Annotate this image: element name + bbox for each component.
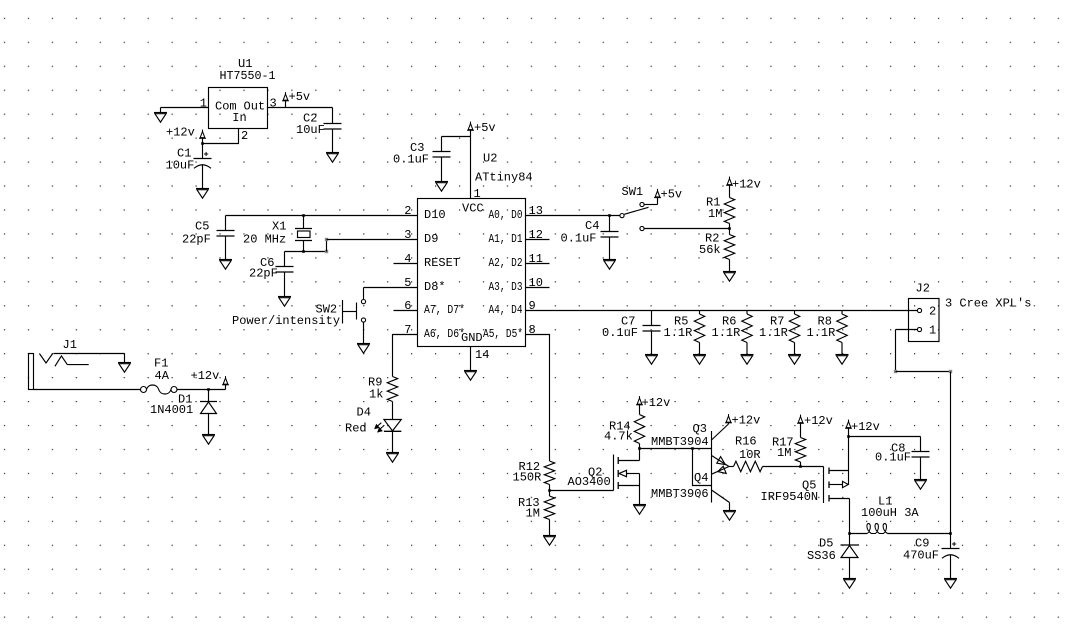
svg-text:D4: D4 (357, 405, 371, 419)
ground (843, 579, 856, 589)
wire J1 tip (54, 353, 125, 355)
resistor R12 (544, 461, 554, 491)
svg-text:+5v: +5v (289, 90, 311, 104)
resistor R5 (694, 311, 704, 355)
inductor L1 (867, 524, 888, 534)
U2 left pin 2 (D10) (404, 204, 445, 222)
svg-text:0.1uF: 0.1uF (875, 451, 911, 465)
svg-text:C5: C5 (195, 220, 209, 234)
svg-text:0.1uF: 0.1uF (393, 153, 429, 167)
J2 pin 2 (917, 308, 921, 312)
svg-text:A7, D7*: A7, D7* (424, 303, 465, 317)
U2 right pin 8 (A5, D5*) (483, 323, 536, 341)
svg-text:+12v: +12v (642, 396, 671, 410)
U2 left pin 7 (A6, D6*) (404, 323, 465, 341)
U2 left pin 6 (A7, D7*) (394, 299, 466, 317)
ground (386, 453, 399, 463)
svg-text:IRF9540N: IRF9540N (761, 490, 819, 504)
ground (435, 182, 448, 192)
svg-text:A0, D0: A0, D0 (489, 208, 523, 222)
svg-text:3: 3 (270, 96, 277, 110)
transistor Q2 AO3400 n-mosfet (614, 449, 640, 505)
svg-text:1k: 1k (369, 388, 383, 402)
svg-text:A3, D3: A3, D3 (489, 280, 523, 294)
LED D4 (375, 420, 402, 432)
U2 pin 14 GND stub (470, 347, 472, 371)
svg-text:10: 10 (529, 276, 543, 290)
svg-text:+12v: +12v (732, 178, 761, 192)
ground (788, 355, 801, 365)
wire gate Q2 (550, 490, 614, 492)
svg-text:A5, D5*: A5, D5* (483, 327, 523, 341)
junction (638, 447, 641, 450)
resistor R8 (837, 311, 847, 355)
capacitor C1 polarized (194, 144, 212, 189)
svg-text:1N4001: 1N4001 (150, 403, 193, 417)
wire VCC pin 1 (470, 137, 472, 199)
svg-text:2: 2 (929, 305, 936, 319)
wire to D9 (326, 240, 328, 252)
svg-text:20 MHz: 20 MHz (243, 233, 286, 247)
wire J2 pin1 down (895, 330, 897, 372)
svg-text:VCC: VCC (462, 201, 484, 215)
switch SW1 (620, 198, 658, 218)
supply +12v (636, 396, 643, 405)
wire L1 to output (888, 533, 951, 535)
wire U1 pin1 input (161, 107, 209, 109)
svg-text:Red: Red (345, 422, 367, 436)
ground (160, 108, 162, 113)
wire emitters to R16 (729, 466, 734, 468)
svg-text:+5v: +5v (661, 188, 683, 202)
svg-text:D8*: D8* (424, 280, 446, 294)
junction (302, 214, 305, 217)
ground (219, 260, 232, 270)
ground (124, 354, 126, 363)
svg-text:+12v: +12v (851, 420, 880, 434)
wire Q4 base branch (693, 449, 712, 486)
wire to Q3/Q4 bases (640, 448, 712, 450)
junction (799, 465, 802, 468)
ground (196, 189, 209, 199)
U2 right pin 9 (A4, D4) (489, 299, 536, 317)
ground (278, 297, 291, 307)
diode D5 SS36 (841, 534, 860, 579)
junction (848, 532, 851, 535)
ground (741, 355, 754, 365)
svg-text:In: In (232, 111, 246, 125)
capacitor C5 (217, 216, 235, 260)
wire crystal bottom (285, 251, 327, 253)
ground (914, 480, 927, 490)
svg-text:AO3400: AO3400 (568, 475, 611, 489)
resistor R7 (789, 311, 799, 355)
svg-text:Q3: Q3 (693, 422, 707, 436)
junction (949, 532, 952, 535)
wire R9 to D4 (392, 402, 394, 420)
resistor R13 (544, 491, 554, 536)
wire D8* net (364, 287, 418, 289)
supply +5v (654, 189, 661, 198)
capacitor C3 (433, 137, 451, 182)
svg-text:U2: U2 (483, 152, 497, 166)
svg-text:MMBT3906: MMBT3906 (651, 487, 709, 501)
junction (847, 435, 850, 438)
junction (691, 447, 694, 450)
svg-text:0.1uF: 0.1uF (561, 232, 597, 246)
ground (357, 344, 370, 354)
svg-text:1.1R: 1.1R (712, 326, 741, 340)
capacitor C4 (601, 216, 619, 260)
svg-text:1.1R: 1.1R (664, 326, 693, 340)
svg-text:R16: R16 (735, 435, 757, 449)
transistor Q4 MMBT3906 pnp (712, 466, 730, 510)
wire F1 to +12v (177, 389, 226, 391)
svg-text:A2, D2: A2, D2 (489, 256, 523, 270)
svg-text:X1: X1 (272, 220, 286, 234)
resistor R1 (724, 192, 734, 229)
U2 left pin 5 (D8*) (404, 276, 445, 294)
supply +12v (845, 420, 852, 437)
wire Q5 drain to L1 (850, 533, 868, 535)
net endpoint marker (325, 238, 328, 241)
U2 right pin 12 (A1, D1) (489, 228, 550, 246)
svg-text:J1: J1 (63, 338, 77, 352)
diode D1 (200, 390, 217, 435)
fuse F1 (141, 385, 178, 394)
svg-text:A1, D1: A1, D1 (489, 232, 523, 246)
ground (464, 371, 477, 381)
ground (645, 355, 658, 365)
junction (728, 227, 731, 230)
svg-text:470uF: 470uF (903, 549, 939, 563)
ground (543, 536, 556, 546)
svg-text:1.1R: 1.1R (759, 326, 788, 340)
svg-text:RESET: RESET (424, 256, 460, 270)
svg-text:1M: 1M (777, 446, 791, 460)
svg-text:4A: 4A (155, 369, 170, 383)
svg-text:10uF: 10uF (166, 159, 195, 173)
crystal X1 (295, 216, 312, 252)
svg-text:14: 14 (475, 348, 489, 362)
svg-text:0.1uF: 0.1uF (602, 326, 638, 340)
wire A5/D5 net to R12 (526, 335, 550, 462)
ground (693, 355, 706, 365)
svg-text:A4, D4: A4, D4 (489, 303, 523, 317)
svg-text:10R: 10R (739, 448, 761, 462)
svg-text:1: 1 (200, 96, 207, 110)
connector J2 box (909, 299, 940, 342)
svg-text:1M: 1M (708, 207, 722, 221)
svg-text:Q4: Q4 (694, 471, 708, 485)
svg-text:22pF: 22pF (182, 233, 211, 247)
svg-text:Out: Out (244, 100, 266, 114)
U2 left pin 4 (RESET) (394, 252, 461, 270)
supply +5v (282, 92, 289, 107)
capacitor C7 (643, 311, 661, 355)
svg-text:1.1R: 1.1R (807, 326, 836, 340)
wire A6/D6 net (393, 335, 418, 377)
svg-text:SS36: SS36 (807, 549, 836, 563)
svg-text:4: 4 (404, 252, 411, 266)
junction (608, 214, 611, 217)
svg-text:22pF: 22pF (249, 267, 278, 281)
supply +12v (199, 130, 206, 144)
wire A4/D4 net (526, 310, 918, 312)
wire D10 net (226, 215, 418, 217)
U2 left pin 3 (D9) (404, 228, 438, 246)
svg-text:4.7k: 4.7k (604, 430, 633, 444)
resistor R2 (724, 229, 734, 272)
svg-text:150R: 150R (513, 471, 542, 485)
svg-text:56k: 56k (699, 243, 721, 257)
supply +12v (797, 415, 804, 424)
ground (723, 511, 736, 521)
svg-text:10uF: 10uF (296, 123, 325, 137)
wire SW1 to divider (644, 228, 729, 230)
junction (201, 142, 204, 145)
U2 right pin 13 (A0, D0) (489, 204, 543, 222)
resistor R9 (387, 377, 397, 402)
ground (944, 579, 957, 589)
ground (202, 435, 215, 445)
junction (548, 489, 551, 492)
svg-text:1M: 1M (526, 507, 540, 521)
wire R16 to gate (763, 466, 824, 468)
svg-text:6: 6 (404, 299, 411, 313)
resistor R17 (795, 423, 805, 466)
net endpoint marker (949, 370, 952, 373)
supply +12v (726, 177, 733, 192)
connector J1 barrel jack (29, 354, 89, 390)
svg-text:D10: D10 (424, 208, 446, 222)
supply +5v (467, 122, 474, 137)
wire J1 sleeve (34, 389, 141, 391)
svg-text:1: 1 (929, 324, 936, 338)
capacitor C2 (324, 108, 342, 153)
capacitor C8 (912, 437, 930, 480)
svg-text:2: 2 (241, 129, 248, 143)
U2 right pin 10 (A3, D3) (489, 276, 550, 294)
ground (633, 505, 646, 515)
ground (723, 272, 736, 282)
wire +12v to C8 (849, 436, 921, 438)
svg-text:+12v: +12v (166, 126, 195, 140)
svg-text:100uH 3A: 100uH 3A (861, 506, 919, 520)
junction (207, 388, 210, 391)
wire A0/D0 net (526, 215, 620, 217)
svg-text:+12v: +12v (804, 414, 833, 428)
supply +12v (222, 376, 229, 389)
J2 pin 1 (896, 324, 937, 338)
supply +12v (725, 414, 732, 424)
svg-text:+12v: +12v (191, 369, 220, 383)
svg-text:11: 11 (529, 252, 543, 266)
junction (302, 250, 305, 253)
svg-text:A6, D6*: A6, D6* (424, 327, 465, 341)
svg-text:J2: J2 (916, 282, 930, 296)
svg-text:3 Cree XPL's: 3 Cree XPL's (945, 297, 1031, 311)
svg-text:+5v: +5v (474, 121, 496, 135)
wire U1 pin2 (203, 129, 239, 144)
IC U1 box (209, 88, 268, 129)
wire +5v to VCC (442, 136, 471, 138)
resistor R6 (742, 311, 752, 355)
U2 right pin 11 (A2, D2) (489, 252, 550, 270)
wire across (896, 371, 951, 373)
svg-text:+12v: +12v (732, 414, 761, 428)
net endpoint marker (325, 250, 328, 253)
resistor R14 (634, 405, 644, 449)
wire to output node (950, 372, 952, 534)
capacitor C6 (276, 252, 294, 297)
wire U1 pin3 output (268, 107, 333, 109)
svg-text:ATtiny84: ATtiny84 (475, 171, 533, 185)
switch SW2 pushbutton (343, 288, 366, 344)
ground (326, 153, 339, 163)
svg-text:Power/intensity: Power/intensity (232, 314, 340, 328)
svg-text:12: 12 (529, 228, 543, 242)
capacitor C9 polarized (942, 534, 960, 579)
ground (603, 260, 616, 270)
svg-text:MMBT3904: MMBT3904 (651, 435, 709, 449)
transistor Q3 MMBT3904 npn (712, 424, 730, 503)
switch SW1 lower contact (640, 226, 644, 230)
transistor Q5 IRF9540N p-mosfet (824, 437, 850, 534)
ground (836, 355, 849, 365)
IC U2 ATtiny84 box (418, 199, 526, 347)
svg-text:HT7550-1: HT7550-1 (220, 69, 276, 83)
resistor R16 (734, 461, 763, 471)
net endpoint marker (894, 370, 897, 373)
wire D9 net (327, 239, 418, 241)
svg-text:D9: D9 (424, 232, 438, 246)
wire D4 to ground (392, 431, 394, 452)
svg-text:SW1: SW1 (622, 185, 644, 199)
